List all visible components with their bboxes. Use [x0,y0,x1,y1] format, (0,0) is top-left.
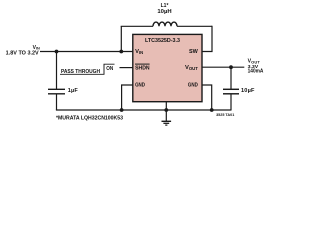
wire top rail right segment [177,25,212,27]
wire left GND pin to rail [122,85,133,110]
wire bottom ground rail [56,109,231,111]
svg-text:SHDN: SHDN [135,66,150,72]
svg-text:LTC3525D-3.3: LTC3525D-3.3 [145,38,180,44]
inductor L1 humps [153,22,177,26]
svg-text:1µF: 1µF [68,88,79,94]
wire input cap to ground rail [56,94,58,110]
wire output cap to rail corner [230,94,232,111]
svg-text:VIN: VIN [135,49,143,55]
svg-text:VOUT: VOUT [248,59,261,65]
wire output cap drop [230,67,232,89]
wire IC bottom pad to rail [165,102,167,111]
svg-text:10µF: 10µF [241,88,255,94]
pin SHDN (pin label, active-low overline) [135,64,150,72]
svg-text:140mA: 140mA [248,69,264,75]
svg-text:1.8V TO 3.2V: 1.8V TO 3.2V [6,51,40,57]
svg-text:VOUT: VOUT [185,65,198,71]
node junction left GND at rail [120,108,124,112]
node junction at inductor tap [119,50,123,54]
node junction at output cap tap [229,65,233,69]
wire to SHDN pin [120,67,133,69]
wire down to SW pin [202,26,212,52]
capacitor C1 1uF plates [48,89,65,94]
node junction at input cap tap [55,50,59,54]
svg-text:3525 TA01: 3525 TA01 [216,113,234,117]
node junction right GND at rail [210,108,214,112]
op-amp U1 : LTC3525D-3.3 IC body [133,34,202,101]
wire input cap drop [56,52,58,90]
ground [162,110,172,125]
wire right GND pin jog to drop [202,85,212,110]
svg-text:GND: GND [188,83,198,89]
svg-text:ON: ON [106,66,113,72]
SHDN drive waveform: low level PASS THROUGH, high level ON [60,64,115,75]
svg-text:10µH: 10µH [157,9,171,15]
svg-text:GND: GND [135,83,145,89]
capacitor C2 10uF plates [223,89,239,94]
wire up to top rail [120,26,122,51]
wire top rail left segment [121,25,153,27]
svg-text:SW: SW [189,49,198,55]
wire VIN input horizontal [40,51,133,53]
wire VOUT horizontal [202,66,244,68]
node junction at ground symbol [164,108,168,112]
svg-text:*MURATA LQH32CN100K53: *MURATA LQH32CN100K53 [56,115,123,121]
